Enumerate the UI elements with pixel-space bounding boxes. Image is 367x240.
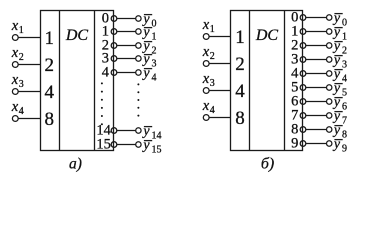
svg-text:y: y: [332, 11, 341, 26]
svg-text:2: 2: [210, 51, 215, 62]
pin number 2 (decoder b): [291, 38, 298, 54]
svg-text:8: 8: [45, 109, 55, 130]
pin number 15 (decoder a): [96, 137, 111, 153]
label ȳ0 (decoder b): [332, 11, 347, 29]
svg-text:8: 8: [342, 129, 347, 140]
svg-text:1: 1: [152, 31, 157, 42]
terminal circle output 15 (decoder a): [136, 142, 141, 147]
input label x1 (decoder b): [202, 17, 215, 35]
decoder DC (a) body outline: [41, 11, 114, 151]
wire output 3 (decoder a): [117, 58, 139, 60]
input label x1 (decoder a): [11, 18, 24, 36]
input label x2 (decoder b): [202, 44, 215, 62]
svg-text:y: y: [332, 67, 341, 82]
ellipsis dots at output terminals column (a): [137, 83, 139, 116]
wire x1 to decoder (decoder a): [15, 37, 40, 39]
svg-text:y: y: [332, 137, 341, 152]
label ȳ5 (decoder b): [332, 81, 347, 99]
pin number 14 (decoder a): [96, 123, 111, 139]
svg-text:3: 3: [342, 59, 347, 70]
wire output 2 (decoder b): [306, 45, 329, 47]
wire x3 to decoder (decoder a): [15, 91, 40, 93]
caption a): [69, 155, 82, 172]
wire output 4 (decoder b): [306, 73, 329, 75]
svg-text:y: y: [332, 109, 341, 124]
terminal circle output 4 (decoder b): [327, 71, 332, 76]
svg-text:9: 9: [291, 136, 298, 152]
input terminal circle x1 (decoder b): [203, 34, 209, 40]
terminal circle output 6 (decoder b): [327, 99, 332, 104]
svg-text:0: 0: [342, 17, 347, 28]
inversion bubble output 4 (decoder b): [300, 71, 306, 77]
svg-text:4: 4: [45, 82, 55, 103]
svg-text:3: 3: [210, 78, 215, 89]
pin number 4 (decoder b): [291, 66, 299, 82]
input terminal circle x3 (decoder a): [12, 89, 18, 95]
terminal circle output 1 (decoder a): [136, 29, 141, 34]
pin number 3 (decoder b): [291, 52, 298, 68]
input weight label 1 (decoder a): [45, 28, 55, 49]
pin number 8 (decoder b): [291, 122, 298, 138]
svg-text:DC: DC: [65, 27, 89, 44]
label ȳ1 (decoder b): [332, 25, 347, 43]
input weight label 4 (decoder a): [45, 82, 55, 103]
wire output 2 (decoder a): [117, 45, 139, 47]
svg-text:y: y: [141, 66, 150, 81]
pin number 6 (decoder b): [291, 94, 298, 110]
label ȳ2 (decoder b): [332, 39, 347, 57]
svg-text:14: 14: [152, 130, 162, 141]
wire output 7 (decoder b): [306, 115, 329, 117]
wire output 1 (decoder b): [306, 31, 329, 33]
label ȳ14 (decoder a): [141, 124, 161, 142]
terminal circle output 4 (decoder a): [136, 70, 141, 75]
terminal circle output 8 (decoder b): [327, 127, 332, 132]
svg-text:y: y: [141, 25, 150, 40]
svg-text:8: 8: [235, 108, 245, 129]
wire output 1 (decoder a): [117, 31, 139, 33]
svg-text:1: 1: [235, 27, 245, 48]
label ȳ15 (decoder a): [141, 138, 161, 156]
wire x2 to decoder (decoder b): [206, 63, 230, 65]
label DC (a): [65, 27, 89, 44]
decoder DC (b) body outline: [231, 11, 303, 151]
inversion bubble output 0 (decoder b): [300, 15, 306, 21]
svg-text:1: 1: [45, 28, 55, 49]
svg-text:7: 7: [342, 115, 347, 126]
svg-text:3: 3: [152, 58, 157, 69]
svg-text:9: 9: [342, 143, 347, 154]
svg-text:2: 2: [45, 55, 55, 76]
input label x4 (decoder b): [202, 98, 215, 116]
svg-text:2: 2: [152, 45, 157, 56]
wire output 5 (decoder b): [306, 87, 329, 89]
wire output 3 (decoder b): [306, 59, 329, 61]
label DC (b): [255, 27, 279, 44]
input terminal circle x3 (decoder b): [203, 88, 209, 94]
svg-text:y: y: [141, 138, 150, 153]
svg-text:а): а): [69, 155, 82, 172]
wire output 15 (decoder a): [117, 144, 139, 146]
label ȳ4 (decoder a): [141, 66, 156, 84]
inversion bubble output 1 (decoder b): [300, 29, 306, 35]
svg-text:5: 5: [342, 87, 347, 98]
label ȳ3 (decoder a): [141, 52, 156, 70]
svg-text:6: 6: [342, 101, 347, 112]
input label x2 (decoder a): [11, 45, 24, 63]
svg-text:1: 1: [342, 31, 347, 42]
svg-text:1: 1: [210, 24, 215, 35]
label ȳ4 (decoder b): [332, 67, 347, 85]
decoder (b) left divider: [249, 11, 251, 151]
label ȳ7 (decoder b): [332, 109, 347, 127]
wire output 14 (decoder a): [117, 130, 139, 132]
terminal circle output 3 (decoder a): [136, 56, 141, 61]
pin number 7 (decoder b): [291, 108, 298, 124]
inversion bubble output 14 (decoder a): [111, 128, 117, 134]
inversion bubble output 6 (decoder b): [300, 99, 306, 105]
label ȳ9 (decoder b): [332, 137, 347, 155]
svg-text:б): б): [261, 156, 274, 173]
svg-text:x: x: [11, 18, 19, 34]
svg-text:1: 1: [19, 25, 24, 36]
inversion bubble output 2 (decoder b): [300, 43, 306, 49]
inversion bubble output 3 (decoder b): [300, 57, 306, 63]
inversion bubble output 15 (decoder a): [111, 142, 117, 148]
pin number 0 (decoder b): [291, 10, 298, 26]
pin number 1 (decoder a): [102, 24, 109, 40]
input weight label 8 (decoder b): [235, 108, 245, 129]
decoder (a) right divider: [94, 11, 96, 151]
terminal circle output 2 (decoder a): [136, 43, 141, 48]
terminal circle output 0 (decoder a): [136, 16, 141, 21]
svg-text:4: 4: [235, 81, 245, 102]
svg-text:2: 2: [342, 45, 347, 56]
svg-text:x: x: [202, 71, 210, 87]
wire output 0 (decoder b): [306, 17, 329, 19]
svg-text:y: y: [332, 95, 341, 110]
input weight label 4 (decoder b): [235, 81, 245, 102]
terminal circle output 9 (decoder b): [327, 141, 332, 146]
inversion bubble output 7 (decoder b): [300, 113, 306, 119]
terminal circle output 5 (decoder b): [327, 85, 332, 90]
pin number 5 (decoder b): [291, 80, 298, 96]
terminal circle output 1 (decoder b): [327, 29, 332, 34]
svg-text:y: y: [332, 81, 341, 96]
decoder (b) right divider: [284, 11, 286, 151]
pin number 0 (decoder a): [102, 11, 109, 27]
input label x3 (decoder b): [202, 71, 215, 89]
wire x2 to decoder (decoder a): [15, 64, 40, 66]
label ȳ2 (decoder a): [141, 39, 156, 57]
svg-text:15: 15: [152, 144, 162, 155]
terminal circle output 0 (decoder b): [327, 15, 332, 20]
svg-text:y: y: [332, 123, 341, 138]
terminal circle output 14 (decoder a): [136, 128, 141, 133]
input label x3 (decoder a): [11, 72, 24, 90]
input weight label 8 (decoder a): [45, 109, 55, 130]
label ȳ6 (decoder b): [332, 95, 347, 113]
inversion bubble output 8 (decoder b): [300, 127, 306, 133]
svg-text:x: x: [11, 72, 19, 88]
wire x1 to decoder (decoder b): [206, 36, 230, 38]
svg-text:x: x: [11, 99, 19, 115]
label ȳ1 (decoder a): [141, 25, 156, 43]
svg-text:4: 4: [152, 72, 157, 83]
label ȳ8 (decoder b): [332, 123, 347, 141]
terminal circle output 7 (decoder b): [327, 113, 332, 118]
svg-text:y: y: [141, 52, 150, 67]
svg-text:x: x: [202, 17, 210, 33]
inversion bubble output 4 (decoder a): [111, 70, 117, 76]
svg-text:15: 15: [96, 137, 111, 153]
decoder (a) left divider: [59, 11, 61, 151]
inversion bubble output 9 (decoder b): [300, 141, 306, 147]
wire output 4 (decoder a): [117, 72, 139, 74]
ellipsis dots inside decoder (a) output column: [101, 82, 103, 125]
svg-text:DC: DC: [255, 27, 279, 44]
inversion bubble output 0 (decoder a): [111, 16, 117, 22]
wire output 8 (decoder b): [306, 129, 329, 131]
wire output 9 (decoder b): [306, 143, 329, 145]
caption b): [261, 156, 274, 173]
svg-text:4: 4: [19, 106, 24, 117]
pin number 4 (decoder a): [102, 65, 110, 81]
svg-text:y: y: [141, 124, 150, 139]
label ȳ0 (decoder a): [141, 12, 156, 30]
svg-text:4: 4: [102, 65, 110, 81]
wire x3 to decoder (decoder b): [206, 90, 230, 92]
wire x4 to decoder (decoder b): [206, 117, 230, 119]
input terminal circle x1 (decoder a): [12, 35, 18, 41]
terminal circle output 3 (decoder b): [327, 57, 332, 62]
svg-text:4: 4: [210, 105, 215, 116]
input label x4 (decoder a): [11, 99, 24, 117]
inversion bubble output 3 (decoder a): [111, 56, 117, 62]
wire output 0 (decoder a): [117, 18, 139, 20]
svg-text:x: x: [11, 45, 19, 61]
svg-text:3: 3: [19, 79, 24, 90]
input terminal circle x2 (decoder a): [12, 62, 18, 68]
inversion bubble output 5 (decoder b): [300, 85, 306, 91]
pin number 1 (decoder b): [291, 24, 298, 40]
pin number 2 (decoder a): [102, 38, 109, 54]
input terminal circle x4 (decoder b): [203, 115, 209, 121]
label ȳ3 (decoder b): [332, 53, 347, 71]
svg-text:4: 4: [342, 73, 347, 84]
input terminal circle x2 (decoder b): [203, 61, 209, 67]
svg-text:x: x: [202, 98, 210, 114]
svg-text:y: y: [332, 39, 341, 54]
inversion bubble output 1 (decoder a): [111, 29, 117, 35]
terminal circle output 2 (decoder b): [327, 43, 332, 48]
pin number 3 (decoder a): [102, 51, 109, 67]
input weight label 2 (decoder a): [45, 55, 55, 76]
svg-text:y: y: [332, 53, 341, 68]
svg-text:2: 2: [19, 52, 24, 63]
input terminal circle x4 (decoder a): [12, 116, 18, 122]
svg-text:2: 2: [235, 54, 245, 75]
wire output 6 (decoder b): [306, 101, 329, 103]
inversion bubble output 2 (decoder a): [111, 43, 117, 49]
pin number 9 (decoder b): [291, 136, 298, 152]
wire x4 to decoder (decoder a): [15, 118, 40, 120]
input weight label 2 (decoder b): [235, 54, 245, 75]
svg-text:0: 0: [152, 18, 157, 29]
svg-text:x: x: [202, 44, 210, 60]
input weight label 1 (decoder b): [235, 27, 245, 48]
svg-text:y: y: [332, 25, 341, 40]
